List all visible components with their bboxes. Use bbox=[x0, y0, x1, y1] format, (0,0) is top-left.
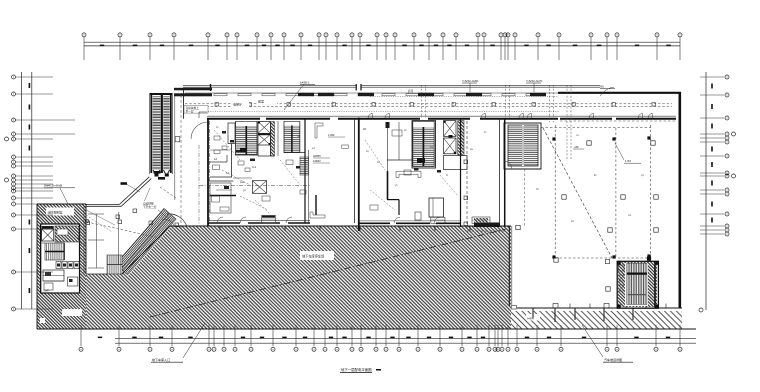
svg-text:地下车库入口: 地下车库入口 bbox=[152, 357, 170, 362]
svg-text:1.8×I: 1.8×I bbox=[625, 159, 632, 163]
svg-text:C#F: C#F bbox=[44, 289, 50, 293]
svg-text:N5: N5 bbox=[600, 85, 604, 89]
svg-text:+8#: +8# bbox=[574, 145, 579, 149]
svg-text:电梯厅: 电梯厅 bbox=[233, 102, 242, 107]
svg-text:YJV22-4x50: YJV22-4x50 bbox=[462, 79, 479, 83]
svg-text:汽车坡道详图: 汽车坡道详图 bbox=[604, 357, 622, 362]
svg-text:下至负二层: 下至负二层 bbox=[143, 205, 157, 209]
svg-text:至一层: 至一层 bbox=[186, 109, 194, 113]
svg-text:地下一层配电平面图: 地下一层配电平面图 bbox=[341, 367, 372, 372]
svg-text:4#D#5: 4#D#5 bbox=[313, 154, 321, 158]
svg-text:YJV22-4x70: YJV22-4x70 bbox=[526, 79, 543, 83]
svg-text:AL2: AL2 bbox=[252, 166, 257, 169]
svg-text:W#41D+6%B: W#41D+6%B bbox=[44, 184, 62, 188]
svg-text:地下车库停车场: 地下车库停车场 bbox=[302, 254, 324, 259]
svg-text:1#38-1: 1#38-1 bbox=[300, 81, 310, 85]
svg-text:商司: 商司 bbox=[408, 89, 414, 93]
svg-text:前室: 前室 bbox=[258, 99, 264, 104]
svg-text:1#D#2: 1#D#2 bbox=[313, 159, 321, 163]
svg-text:1.#6#: 1.#6# bbox=[328, 133, 335, 137]
svg-text:消防控制室: 消防控制室 bbox=[48, 210, 63, 215]
svg-text:自动扶梯: 自动扶梯 bbox=[143, 202, 154, 206]
